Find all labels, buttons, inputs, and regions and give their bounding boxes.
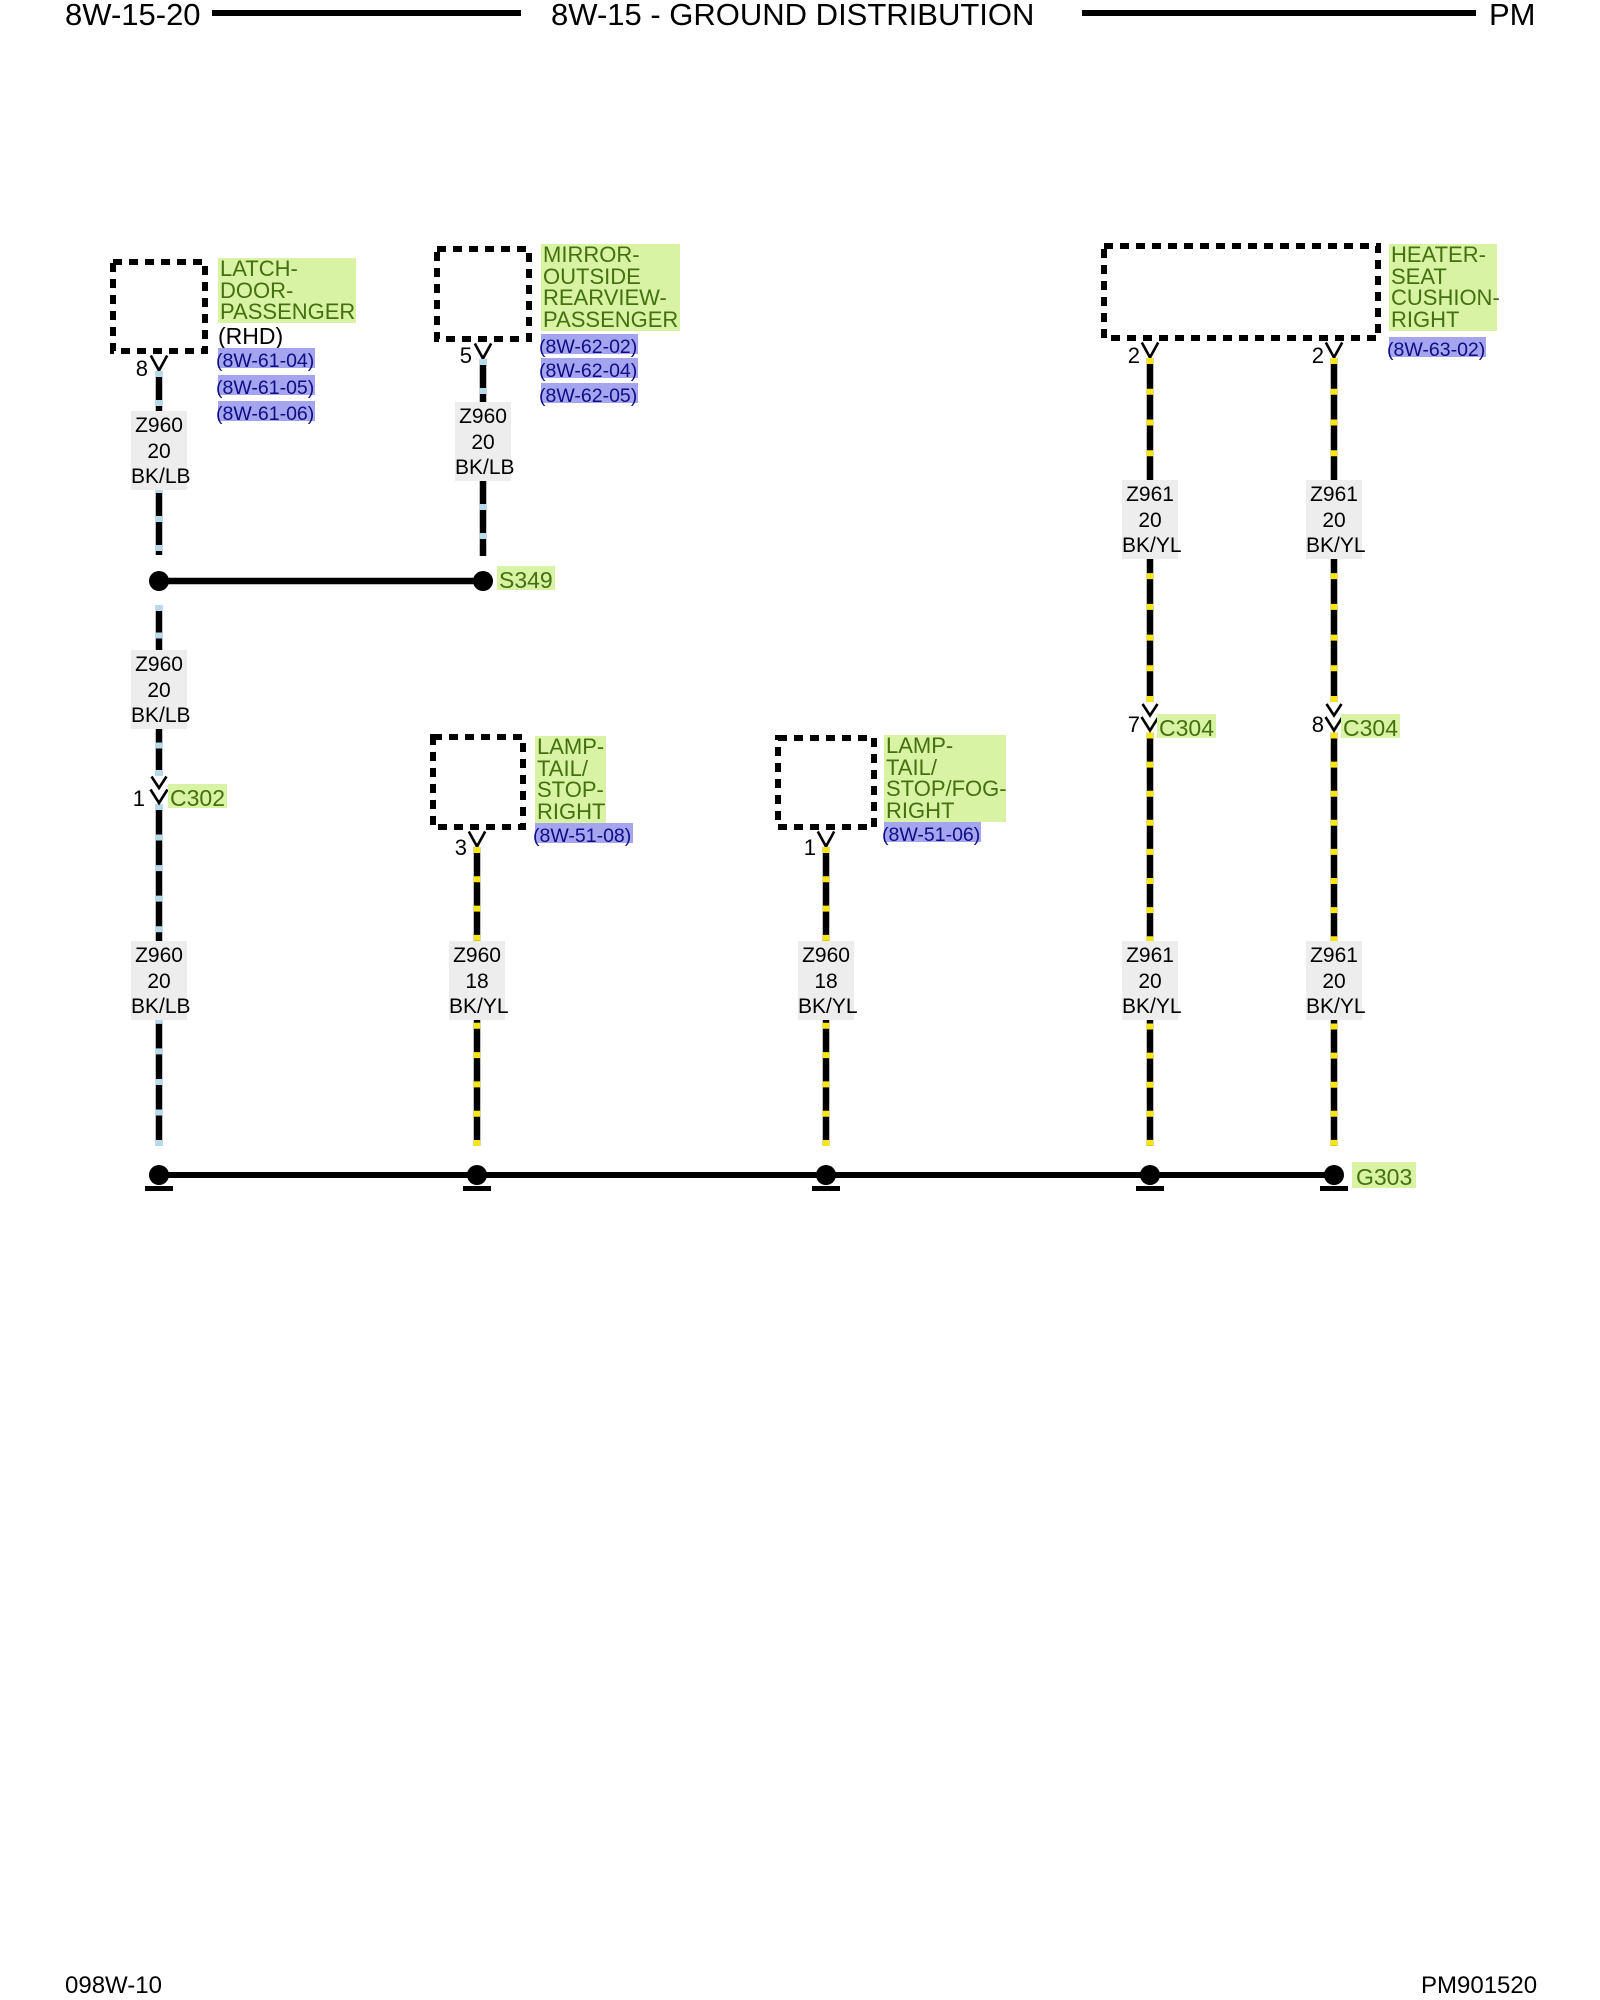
- wire Z960 18 BK/YL from lamp tail/stop/fog pin 1 to ground G303: [823, 847, 830, 1146]
- ground node 5: [1324, 1165, 1344, 1185]
- wire Z960 18 BK/YL from lamp tail/stop pin 3 to ground G303: [474, 847, 481, 1146]
- wire Z961 20 BK/YL from heater pin 2 right to connector C304: [1331, 358, 1338, 702]
- wire label Z961 20 BK/YL heater left upper: [1122, 480, 1178, 559]
- header rule right: [1082, 10, 1476, 16]
- wire Z960 20 BK/LB from splice S349 to connector C302: [156, 605, 163, 776]
- ground bus G303: [159, 1172, 1334, 1178]
- splice label S349: [497, 566, 555, 590]
- wire label Z960 20 BK/LB mirror: [455, 402, 511, 481]
- wire label Z961 20 BK/YL heater right upper: [1306, 480, 1362, 559]
- ref (8W-51-06): [884, 822, 981, 842]
- in-line connector C302 chevrons: [152, 777, 167, 789]
- wire Z961 20 BK/YL from C304 pin 7 to ground G303: [1147, 733, 1154, 1147]
- in-line connector C304 right chevrons: [1327, 704, 1342, 716]
- label MIRROR-OUTSIDE REARVIEW-PASSENGER: [541, 244, 680, 331]
- ref (8W-51-08): [535, 823, 633, 843]
- connector label C302: [168, 784, 227, 808]
- wire Z960 20 BK/LB from connector C302 to ground G303: [156, 804, 163, 1146]
- label LAMP-TAIL/STOP/FOG-RIGHT: [884, 735, 1006, 822]
- wire label Z960 20 BK/LB upper left: [131, 411, 187, 490]
- connector box LATCH-DOOR-PASSENGER: [113, 262, 205, 351]
- pin V terminal 3 of lamp tail/stop box: [469, 832, 485, 847]
- wire Z961 20 BK/YL from C304 pin 8 to ground G303: [1331, 733, 1338, 1147]
- wire Z960 20 BK/LB from latch pin 8 to splice S349: [156, 371, 163, 555]
- header left page number: [65, 0, 201, 30]
- pin V terminal 2 left of heater box: [1142, 343, 1158, 358]
- wire Z960 20 BK/LB from mirror pin 5 to splice S349: [480, 359, 487, 556]
- label LAMP-TAIL/STOP-RIGHT: [535, 736, 606, 823]
- in-line connector C304 left chevrons: [1143, 704, 1158, 716]
- header title: [551, 0, 1034, 30]
- wire label Z961 20 BK/YL heater left lower: [1122, 941, 1178, 1020]
- pin number 2 left: [1110, 345, 1140, 367]
- header right code: [1489, 0, 1536, 30]
- ref (8W-63-02): [1389, 337, 1486, 357]
- ref (8W-62-02): [541, 334, 638, 354]
- wire Z961 20 BK/YL from heater pin 2 left to connector C304: [1147, 358, 1154, 702]
- pin number 2 right: [1294, 345, 1324, 367]
- pin number 1: [786, 837, 816, 859]
- wire label Z960 20 BK/LB lower left: [131, 941, 187, 1020]
- pin V terminal 2 right of heater box: [1326, 343, 1342, 358]
- ref (8W-62-04): [541, 358, 638, 378]
- connector label C304 right: [1341, 714, 1400, 738]
- ground node 2: [467, 1165, 487, 1185]
- pin V terminal 5 of mirror box: [475, 344, 491, 359]
- pin number 3: [437, 837, 467, 859]
- pin V terminal 1 of lamp tail/stop/fog box: [818, 832, 834, 847]
- ref (8W-61-04): [218, 348, 315, 368]
- splice S349 bar: [159, 578, 483, 585]
- wire label Z961 20 BK/YL heater right lower: [1306, 941, 1362, 1020]
- splice S349 node right: [473, 571, 493, 591]
- ground node 3: [816, 1165, 836, 1185]
- ref (8W-61-05): [218, 375, 315, 395]
- label HEATER-SEAT CUSHION-RIGHT: [1389, 244, 1497, 331]
- pin number 8 at C304 right: [1294, 714, 1324, 736]
- ground label G303: [1352, 1162, 1416, 1188]
- splice S349 node left: [149, 571, 169, 591]
- ground node 1: [149, 1165, 169, 1185]
- pin number 5: [442, 345, 472, 367]
- ref (8W-62-05): [541, 383, 638, 403]
- pin number 7 at C304 left: [1110, 714, 1140, 736]
- footer right: [1421, 1974, 1537, 1998]
- footer left: [65, 1974, 162, 1998]
- ref (8W-61-06): [218, 401, 315, 421]
- header rule left: [212, 10, 521, 16]
- wire label Z960 18 BK/YL tail/stop/fog: [798, 941, 854, 1020]
- wire label Z960 20 BK/LB middle left: [131, 650, 187, 729]
- ground node 4: [1140, 1165, 1160, 1185]
- connector box LAMP-TAIL/STOP/FOG-RIGHT: [778, 738, 874, 827]
- connector box HEATER-SEAT CUSHION-RIGHT: [1104, 246, 1378, 338]
- pin number 8: [118, 358, 148, 380]
- connector box MIRROR-OUTSIDE REARVIEW-PASSENGER: [437, 249, 529, 339]
- label (RHD): [218, 324, 283, 349]
- connector box LAMP-TAIL/STOP-RIGHT: [433, 737, 523, 827]
- connector label C304 left: [1157, 714, 1216, 738]
- pin number 1 at C302: [115, 788, 145, 810]
- wire label Z960 18 BK/YL tail/stop: [449, 941, 505, 1020]
- label LATCH-DOOR-PASSENGER: [218, 258, 356, 323]
- pin V terminal 8 of latch box: [151, 356, 167, 371]
